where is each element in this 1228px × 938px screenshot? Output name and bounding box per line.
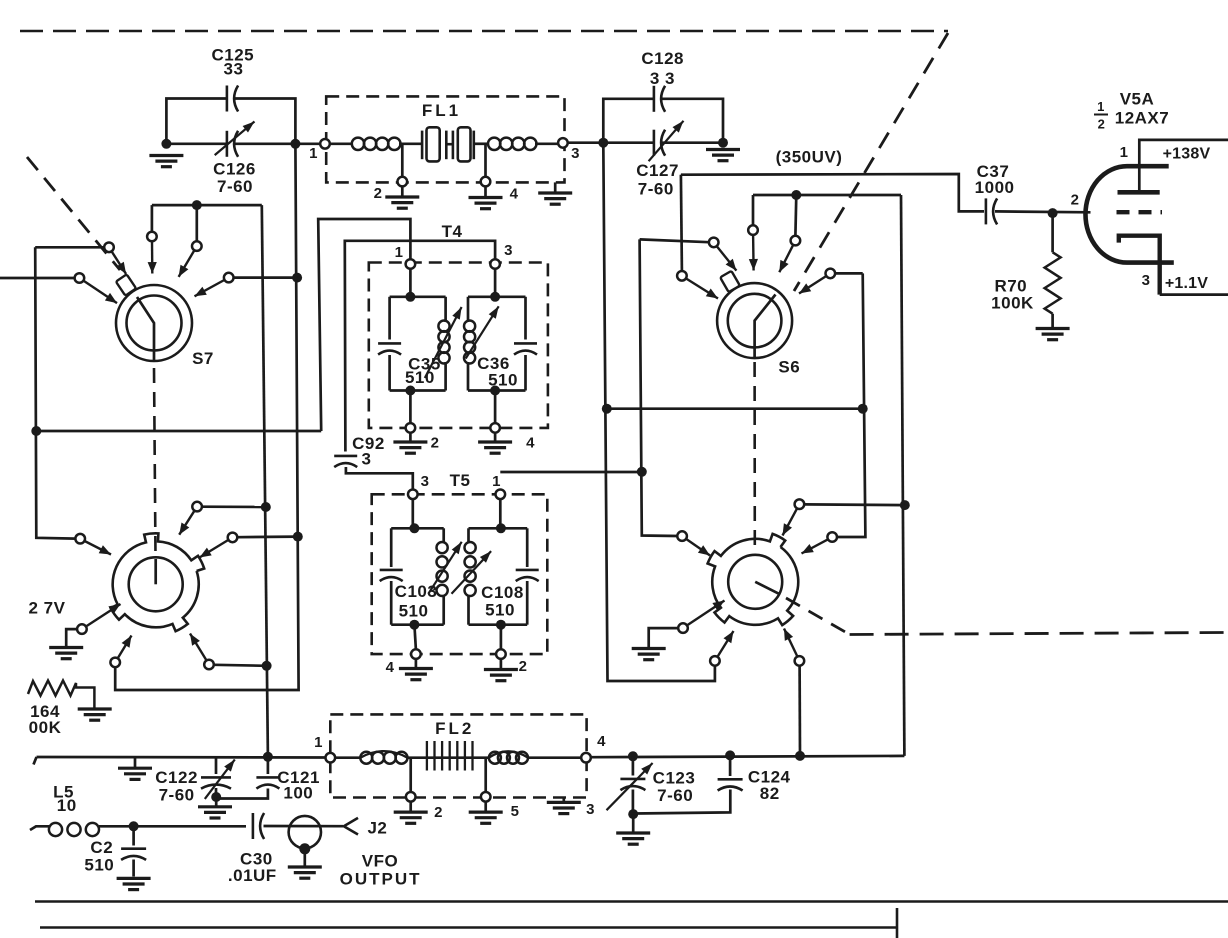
svg-text:2: 2	[1098, 117, 1106, 132]
svg-text:510: 510	[399, 602, 429, 621]
arrow of trimmer C122	[205, 760, 235, 799]
ground at R70	[1036, 329, 1070, 340]
wire FL1 right coil to pin 3	[535, 142, 558, 145]
svg-text:2: 2	[1071, 192, 1080, 209]
contact of S7 (lower left)	[75, 273, 85, 283]
wire C2 bottom lead	[132, 860, 135, 877]
rotary switch body (lower right, rear wafer of S6)	[708, 534, 799, 625]
inductor FL1 left winding	[352, 138, 401, 150]
capacitor C108 510	[516, 570, 539, 581]
wire T4 right tank bottom to pin 4	[494, 391, 497, 424]
wiper arrow S6 top-left contact	[749, 235, 758, 270]
svg-text:C126: C126	[213, 160, 256, 179]
trimmer capacitor C123 7-60	[620, 779, 645, 790]
svg-text:1: 1	[309, 145, 318, 162]
rotor tab of S7	[116, 274, 136, 295]
ground at T5 pin 4	[399, 669, 433, 680]
wire T4 left tank top	[390, 295, 446, 298]
wire T5 pin1 into winding	[499, 499, 502, 529]
svg-text:2: 2	[434, 804, 443, 821]
wire S6 bracket middle drop	[794, 195, 798, 236]
ground at C2	[117, 878, 151, 889]
wire output to LR bottom-right contact	[798, 666, 801, 756]
core/shield tick marks of FL2	[426, 741, 428, 771]
contact of S6 (left)	[709, 238, 719, 248]
arrow of trimmer C123	[607, 763, 653, 810]
junction left bus / tie wire	[31, 426, 41, 436]
contact lower-left switch (grounded)	[77, 624, 87, 634]
wiper arrow LL grounded contact	[86, 604, 120, 626]
wire LR grounded contact lead	[649, 628, 679, 647]
slug tuning arrow T4 right	[466, 306, 499, 358]
wire T4 right tank top	[468, 295, 526, 298]
transformer T5 enclosure	[372, 494, 548, 654]
border line 2 of next schematic section	[40, 926, 897, 929]
connector J2 chevron	[344, 818, 358, 835]
wire FL1 left coil to crystal	[399, 142, 421, 145]
T4 pin 1 terminal	[406, 259, 416, 269]
wire T5 pin4 ground stem	[415, 659, 418, 667]
FL2 pin 5 terminal	[481, 792, 491, 802]
wire VFO line hook	[34, 757, 37, 765]
contact lower-left switch (bottom left)	[110, 658, 120, 668]
ground on VFO line	[118, 768, 152, 779]
svg-text:2: 2	[374, 185, 383, 202]
wire FL2 pin 5 drop	[484, 758, 487, 792]
wire T5 left tank bottom to pin 4	[414, 625, 416, 650]
FL2 pin 4 terminal	[581, 753, 591, 763]
wire C37 to V5A grid	[995, 210, 1091, 214]
wire T4 pin3 loop to C92	[345, 241, 495, 452]
capacitor C121 100	[256, 777, 279, 788]
wire S6 top bracket	[753, 194, 901, 197]
contact lower-right switch (bottom right)	[795, 656, 805, 666]
wiper arrow LR bottom-right contact	[784, 629, 797, 657]
slug tuning arrow T4 left	[425, 307, 462, 378]
svg-text:C122: C122	[155, 768, 198, 787]
contact lower-right switch (upper left)	[677, 531, 687, 541]
svg-text:1: 1	[1097, 99, 1105, 114]
wire C123 bottom to C124 bottom	[633, 790, 730, 814]
wire LR top contact to bracket bus	[804, 503, 904, 506]
svg-text:4: 4	[526, 435, 535, 452]
wire C123 bottom lead	[632, 790, 635, 815]
slug tuning arrow T5 left	[428, 542, 461, 594]
winding of T5 (left)	[437, 542, 448, 596]
contact lower-right switch (top)	[795, 499, 805, 509]
wire S6 selector output to C37	[681, 174, 984, 211]
wire T4 left tank right side lower	[444, 362, 447, 391]
cathode of V5A (pin 3)	[1119, 236, 1160, 295]
arrow of trimmer C127	[649, 121, 684, 161]
junction C126 / FL1 pin1 node	[290, 139, 300, 149]
contact of S7 (top left)	[147, 232, 157, 242]
wire crystal to FL1 right coil	[474, 142, 489, 145]
svg-text:510: 510	[405, 368, 435, 387]
wire S7 bracket left drop	[151, 205, 154, 231]
wire J2 shield ground stem	[303, 853, 306, 866]
junction T4 pin3 / right tank	[490, 292, 500, 302]
ground at FL2 pin 2	[394, 812, 428, 823]
junction T4 left tank bottom	[405, 386, 415, 396]
grid of V5A (pin 2, dashed)	[1117, 210, 1163, 214]
arrow of trimmer C126	[215, 122, 255, 156]
wire T5 pin2 ground stem	[500, 659, 503, 668]
wiper arrow LR bottom-left contact	[718, 631, 734, 657]
wire FL1 pin4 to ground	[484, 186, 487, 196]
svg-text:3: 3	[421, 473, 430, 490]
ground at FL1 pin 4	[469, 198, 503, 209]
wire LL right contact to bus	[238, 535, 298, 538]
mechanical gang dashed diagonal to S6	[794, 33, 948, 291]
ground at T4 pin 4	[478, 442, 512, 453]
wire C121 top lead	[267, 757, 270, 774]
wire T5 right tank left side upper	[467, 528, 470, 543]
contact of S6 (top left)	[748, 225, 758, 235]
junction output / lower switch contact	[795, 751, 805, 761]
junction left S6 bus / S6 bottom wire	[602, 404, 612, 414]
wire C127 row left	[603, 141, 653, 144]
wire C123 top lead	[632, 756, 635, 775]
wire C125 top row	[166, 99, 226, 144]
T5 pin 4 terminal	[411, 649, 421, 659]
svg-text:C127: C127	[636, 161, 679, 180]
rotor tab of S6	[720, 271, 740, 292]
capacitor C128 33	[654, 86, 665, 112]
mechanical gang dashed line (right)	[850, 633, 1228, 635]
wire C123 ground stem	[632, 814, 635, 831]
wire T5 left tank top	[391, 527, 444, 530]
wire T4 right tank right side lower	[524, 355, 527, 391]
svg-text:5: 5	[511, 803, 520, 820]
wire FL1 pin 2 drop	[401, 144, 404, 177]
wire S7 right contact to node	[234, 276, 297, 279]
svg-text:12AX7: 12AX7	[1115, 109, 1169, 128]
ground at R64	[78, 709, 112, 720]
mechanical gang dashed line (top)	[20, 30, 948, 33]
svg-text:C2: C2	[90, 838, 113, 857]
wire T4 left tank left side upper	[388, 297, 391, 340]
capacitor C125 33	[227, 86, 238, 112]
wiper arrow LL bottom-left contact	[118, 636, 132, 659]
rotary switch S7 body	[116, 285, 192, 361]
wiper arrow LR upper-left contact	[686, 539, 710, 556]
svg-text:FL1: FL1	[422, 101, 461, 120]
T5 pin 2 terminal	[496, 649, 506, 659]
wire T5 left tank right side lower	[442, 596, 445, 625]
svg-text:3: 3	[1142, 272, 1151, 289]
wiper arrow LR grounded contact	[687, 601, 724, 626]
junction bracket bus / lower switch wire	[900, 500, 910, 510]
wiper arrow S6 right contact	[799, 276, 826, 293]
wire T4 left tank right side upper	[444, 297, 447, 322]
wire R70 bottom lead	[1051, 314, 1054, 327]
mechanical gang dashed shaft S6 to lower switch	[753, 362, 756, 547]
wire FL2 right coil to pin 4	[528, 756, 581, 759]
junction L5 / C2	[129, 821, 139, 831]
junction J2 shield	[299, 843, 310, 854]
slug tuning arrow T5 right	[452, 551, 492, 594]
svg-text:C123: C123	[653, 769, 696, 788]
wire V5A cathode to +1.1V	[1160, 293, 1228, 296]
junction C123 bottom	[628, 809, 638, 819]
svg-text:3 3: 3 3	[650, 69, 675, 88]
svg-text:3: 3	[571, 145, 580, 162]
wire C126 row left	[166, 142, 226, 145]
contact of S7 (top middle)	[192, 241, 202, 251]
capacitor C35 510	[378, 343, 401, 354]
svg-text:1: 1	[492, 473, 501, 490]
wire C126 row right to FL1 pin 1	[235, 142, 320, 145]
contact lower-right switch (right)	[827, 532, 837, 542]
svg-text:FL2: FL2	[435, 719, 474, 738]
svg-text:T5: T5	[450, 471, 471, 490]
wire FL1 pin 4 drop	[484, 144, 487, 177]
svg-text:T4: T4	[442, 222, 463, 241]
svg-text:2 7V: 2 7V	[29, 599, 66, 618]
junction S6 bottom wire / right bus	[858, 404, 868, 414]
fraction bar	[1094, 114, 1108, 116]
wire C2 top lead	[132, 826, 135, 845]
junction C122 bottom / ground / C121 bottom	[211, 792, 221, 802]
junction on S7 bracket	[192, 200, 202, 210]
junction T5 left tank bottom	[409, 620, 419, 630]
contact lower-left switch (upper left)	[75, 534, 85, 544]
contact lower-right switch (bottom left)	[710, 656, 720, 666]
wiper arrow S6 lower-left contact	[686, 279, 718, 299]
contact lower-left switch (right)	[228, 533, 238, 543]
svg-text:OUTPUT: OUTPUT	[340, 870, 422, 889]
ground at lower-right switch contact	[632, 649, 666, 660]
wire T5 pin3 into winding	[413, 499, 415, 529]
svg-text:00K: 00K	[29, 718, 62, 737]
svg-text:4: 4	[510, 186, 519, 203]
svg-text:82: 82	[760, 784, 780, 803]
wire T5 right tank left side lower	[467, 596, 470, 625]
wire horizontal tie at y=431	[36, 430, 321, 433]
junction T4 pin1 / left tank	[405, 292, 415, 302]
junction VFO line / S7 bracket bus / C121	[263, 752, 273, 762]
ground at T4 pin 2	[393, 442, 427, 453]
junction S7 right contact on vertical bus	[292, 273, 302, 283]
wire C92 to T5 pin 3	[346, 467, 413, 490]
wire C125 to node	[235, 99, 295, 144]
wire T4 right tank bottom	[468, 389, 526, 392]
svg-text:1: 1	[395, 244, 404, 261]
wiper arrow LL upper-left contact	[85, 541, 111, 555]
wire T5 left tank right side upper	[442, 528, 445, 543]
junction T5 right tank bottom	[496, 620, 506, 630]
wire FL2 pin5 ground stem	[484, 802, 487, 811]
svg-text:2: 2	[431, 435, 440, 452]
FL2 pin 1 terminal	[326, 753, 336, 763]
T4 pin 4 terminal	[490, 423, 500, 433]
junction T5 pin3 / left tank	[409, 523, 419, 533]
wire C122 top lead	[215, 757, 218, 774]
rotor pointer of S6	[755, 295, 776, 359]
wire FL2 case ground stem	[562, 798, 565, 802]
contact lower-right switch (grounded)	[678, 623, 688, 633]
wire C30 to J2	[264, 825, 344, 828]
wire S6 lower-left contact feed	[681, 175, 682, 271]
svg-text:2: 2	[519, 658, 528, 675]
wire FL2 pin1 to left coil	[335, 756, 361, 759]
wire bus from C126 node down to lower-left switch loop	[115, 144, 298, 690]
svg-text:510: 510	[84, 856, 114, 875]
wire S6 bracket left drop	[752, 195, 755, 225]
svg-text:100: 100	[283, 784, 313, 803]
contact lower-left switch (bottom right)	[204, 660, 214, 670]
wire T5 pin1 to S6 bus	[500, 471, 642, 474]
resistor R64 (zigzag, clipped at edge)	[28, 681, 94, 708]
svg-text:7-60: 7-60	[638, 180, 674, 199]
ground at C123	[616, 833, 650, 844]
wire T5 right tank bottom to pin 2	[500, 625, 503, 650]
wire S7 top bracket	[152, 204, 262, 207]
mechanical gang dashed shaft S7 to lower switch	[154, 368, 156, 556]
contact of S6 (top middle)	[791, 236, 801, 246]
wire bus S6 right contact down to lower-right switch	[837, 273, 865, 537]
junction grid node / R70	[1048, 208, 1058, 218]
svg-text:510: 510	[485, 601, 515, 620]
winding of T5 (right)	[465, 542, 476, 596]
wire R70 top lead	[1051, 213, 1054, 252]
wire T4 pin1 into winding	[409, 269, 412, 297]
wire LL bottom-right contact to bus	[214, 665, 267, 666]
wire FL1 pin2 to ground	[401, 186, 404, 196]
junction T4 right tank bottom	[490, 386, 500, 396]
T4 pin 3 terminal	[490, 259, 500, 269]
wire C127 row right	[662, 141, 723, 144]
junction C128/C127 left node	[598, 138, 608, 148]
svg-text:S6: S6	[778, 358, 800, 377]
wire bus S6 bracket down to FL2 output	[901, 195, 904, 756]
junction LL bottom-right contact / S7 bracket bus	[262, 661, 272, 671]
wire bus S6 left contact down to lower-right switch	[640, 239, 678, 536]
wire T4 right tank left side upper	[467, 297, 470, 322]
wire bus FL1-pin3 node down left side of S6	[603, 143, 715, 681]
wire T4 left tank left side lower	[388, 355, 391, 391]
wire VFO line ground stem	[134, 757, 137, 767]
wire T4 right tank right side upper	[524, 297, 527, 340]
wire C128 top row	[603, 99, 653, 143]
trimmer capacitor C126 7-60	[227, 131, 238, 157]
svg-text:4: 4	[386, 659, 395, 676]
junction LL right contact / C126 bus	[293, 532, 303, 542]
svg-text:+1.1V: +1.1V	[1165, 275, 1208, 292]
rotor pointer of lower-right switch	[755, 582, 779, 594]
wire T4 left tank bottom to pin 2	[409, 391, 412, 424]
rotary switch S6 body	[717, 283, 792, 358]
wire VFO output line	[37, 756, 326, 759]
wire T4 pin3 into winding	[494, 269, 497, 297]
svg-text:C103: C103	[395, 582, 438, 601]
junction LL top-right contact / S7 bracket bus	[261, 502, 271, 512]
svg-text:7-60: 7-60	[159, 786, 195, 805]
ground at lower-left switch contact	[49, 648, 83, 659]
wiper arrow S7 top-middle contact	[179, 250, 195, 277]
svg-text:1: 1	[1120, 144, 1129, 161]
wiper arrow S6 left contact	[717, 246, 737, 270]
svg-text:3: 3	[504, 242, 513, 259]
ground at J2	[288, 867, 322, 878]
junction on S6 bracket	[791, 190, 801, 200]
ground at FL2 pin 5	[469, 812, 503, 823]
wire LL top-right contact to bus	[202, 505, 266, 508]
junction T5 pin1 wire / S6 left bus	[637, 467, 647, 477]
wiper arrow LL bottom-right contact	[190, 634, 206, 661]
transformer T4 enclosure	[369, 263, 548, 428]
wire T5 right tank top	[469, 527, 528, 530]
wire T4 right tank left side lower	[467, 362, 470, 391]
capacitor C103 510	[380, 570, 403, 581]
wiper arrow S7 lower-left contact	[84, 281, 117, 303]
T5 pin 1 terminal	[496, 490, 506, 500]
wire S6 left contact feed	[640, 239, 709, 242]
wire S6 right contact to right bus	[835, 272, 862, 275]
wiper arrow LL top-right contact	[179, 511, 194, 535]
connector J2 body circle	[289, 816, 321, 848]
wiper arrow LR top contact	[783, 509, 798, 536]
FL1 pin 4 terminal	[481, 177, 491, 187]
mechanical gang dashed diagonal to S7	[27, 157, 120, 270]
FL1 pin 2 terminal	[398, 177, 408, 187]
svg-text:510: 510	[488, 371, 518, 390]
wire C121 bottom lead to C122 bottom	[216, 789, 268, 799]
svg-text:.01UF: .01UF	[228, 866, 277, 885]
wiper arrow S7 right contact	[195, 280, 225, 296]
contact of S7 (left)	[104, 243, 114, 253]
wire S7 bracket middle drop	[195, 205, 198, 241]
ground at T5 pin 2	[484, 670, 518, 681]
contact of S7 (right)	[224, 273, 234, 283]
svg-text:S7: S7	[192, 349, 214, 368]
crystal filter elements inside FL1	[422, 127, 474, 161]
T5 pin 3 terminal	[408, 490, 418, 500]
wire L5 input lead	[30, 826, 50, 830]
svg-text:4: 4	[597, 733, 606, 750]
svg-text:(350UV): (350UV)	[776, 148, 843, 167]
wire C122 ground stem	[215, 797, 218, 806]
wire S7 lower-left contact feed from image edge	[0, 277, 74, 280]
wire T5 right tank right side upper	[526, 528, 529, 567]
wiper arrow S6 top-middle contact	[779, 245, 793, 272]
wire FL1 pin1 to left coil	[330, 142, 352, 145]
FL1 pin 3 terminal	[558, 138, 568, 148]
wire S7 left contact feed	[35, 246, 104, 249]
wire FL2 pin2 ground stem	[409, 802, 412, 811]
ground at C127/C128 right node	[706, 150, 740, 161]
plate of V5A (pin 1)	[1118, 190, 1160, 195]
capacitor C30 .01UF	[253, 813, 264, 839]
ground at FL1 pin 2	[385, 197, 419, 208]
svg-text:1: 1	[314, 734, 323, 751]
wiper arrow LR right contact	[802, 539, 828, 553]
svg-text:V5A: V5A	[1120, 90, 1155, 109]
arch over FL2 right winding	[489, 751, 528, 757]
ground at C122	[198, 807, 232, 818]
wire bus S7 bracket down to VFO line	[262, 205, 268, 757]
wire S6 bottom horizontal	[607, 407, 863, 410]
inductor FL1 right winding	[488, 138, 537, 150]
arch over FL2 left winding	[360, 751, 407, 758]
border line of next schematic section	[35, 900, 1228, 903]
wiper arrow S7 left contact	[112, 252, 126, 275]
rotor pointer of lower-left switch	[154, 559, 157, 584]
FL1 pin 1 terminal	[320, 139, 330, 149]
wire C124 top lead	[729, 755, 732, 776]
mechanical gang dashed diagonal from lower right switch	[786, 598, 850, 635]
